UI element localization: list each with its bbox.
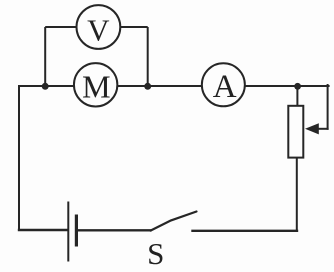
rheostat body rectangle [288, 106, 303, 158]
battery: short thick plate (negative) [75, 215, 78, 247]
wire: left vertical side [18, 86, 20, 230]
motor M [74, 63, 117, 106]
voltmeter branch wire: right horizontal [121, 26, 148, 28]
ammeter A [202, 63, 245, 106]
voltmeter branch wire: right vertical down to junction [147, 27, 149, 86]
wire: bottom left to battery [19, 229, 67, 231]
battery: long plate (positive) [67, 202, 69, 262]
voltmeter branch wire: left horizontal [45, 26, 76, 28]
voltmeter V [77, 5, 121, 49]
wire: right vertical below rheostat [296, 157, 298, 231]
wire: battery to switch pivot [78, 229, 151, 231]
wire: wiper horizontal into arrowhead [317, 128, 328, 130]
svg-text:A: A [213, 69, 237, 105]
wire: top-right corner down to wiper level [327, 85, 329, 129]
svg-text:S: S [147, 236, 164, 271]
svg-text:M: M [82, 68, 110, 104]
wire: bottom right, switch right terminal to right vertical [193, 230, 298, 232]
junction node: rheostat top [294, 83, 301, 90]
wire: right junction down to rheostat top [296, 86, 298, 107]
svg-text:V: V [87, 13, 110, 48]
junction node: left (V/M branch) [42, 83, 49, 90]
voltmeter branch wire: left vertical down to junction [44, 27, 46, 86]
wire: motor M right to ammeter A left [118, 85, 201, 87]
switch S blade [151, 212, 197, 231]
junction node: right of M (V/M branch) [144, 83, 151, 90]
wire: ammeter A right past right junction to top-right corner [246, 85, 329, 87]
rheostat wiper arrowhead [305, 123, 319, 134]
wire: main top, left corner to motor M left [19, 85, 74, 87]
